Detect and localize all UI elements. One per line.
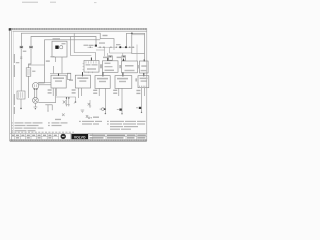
wire C to alternator bbox=[38, 82, 45, 84]
alternator G1 bbox=[32, 83, 38, 89]
relay R1 label bbox=[117, 57, 122, 59]
wire left drop 1 bbox=[20, 48, 22, 91]
wire left drop 2 bbox=[29, 48, 32, 98]
fusible link label bbox=[32, 71, 35, 72]
wire bus A top bbox=[21, 33, 114, 47]
unit box L4 bbox=[115, 76, 132, 89]
coil label bbox=[53, 38, 61, 40]
alternator leads bbox=[34, 89, 36, 98]
top zone tick marks bbox=[12, 28, 145, 29]
inline connector dark blob bbox=[95, 45, 97, 47]
relay box small R2 bbox=[109, 56, 113, 60]
svg-text:VOLVO: VOLVO bbox=[74, 135, 86, 139]
label between U1 U2 bbox=[100, 64, 102, 68]
wire drop right of row bbox=[136, 45, 138, 62]
control unit U2 bbox=[103, 61, 119, 73]
notes text middle block bbox=[79, 121, 102, 125]
battery box left bbox=[17, 91, 25, 99]
wires below L3 bbox=[99, 88, 105, 113]
wire branch y65 bbox=[29, 64, 45, 66]
title block bottom line bbox=[10, 139, 147, 141]
wire below battery bbox=[20, 99, 22, 108]
notes text left block bbox=[11, 122, 44, 131]
wire label left 1 bbox=[23, 51, 27, 52]
junction cluster below L2 bbox=[63, 97, 70, 104]
bus segment right bbox=[127, 33, 145, 59]
frame corner mark bbox=[9, 28, 11, 30]
relay box small R1 bbox=[122, 56, 126, 60]
coil terminal circle bbox=[60, 46, 63, 49]
wire right bus lower bbox=[132, 34, 145, 36]
ignition coil box bbox=[52, 41, 67, 57]
unit box L5 bbox=[138, 76, 149, 88]
connector under L5 bbox=[139, 107, 141, 109]
connector under L4 bbox=[119, 109, 121, 111]
coil primary dark square bbox=[55, 46, 58, 49]
coil leads down bbox=[56, 57, 63, 74]
frame bottom edge bbox=[10, 140, 147, 142]
stub into U3 bbox=[123, 59, 125, 61]
tail end connector bbox=[75, 101, 77, 103]
inline connectors on row bbox=[90, 47, 134, 49]
connector row wire bbox=[88, 46, 135, 48]
wires below L5 bbox=[142, 88, 145, 112]
ground symbol mid bbox=[81, 110, 85, 112]
wire bus C bbox=[45, 40, 101, 83]
connector row labels bbox=[84, 42, 121, 46]
wire alternator to box L1 bbox=[39, 84, 52, 86]
wire y53 link bbox=[108, 47, 132, 58]
wires below L4 bbox=[119, 88, 122, 113]
title block top line bbox=[10, 133, 147, 135]
unit box L1 bbox=[51, 75, 66, 88]
stub into U4 bbox=[143, 59, 145, 61]
label on stepped bus bbox=[103, 35, 108, 36]
notes text second block bbox=[48, 122, 68, 126]
unit box L2 bbox=[75, 75, 90, 88]
wire alternator upper lead bbox=[38, 81, 51, 83]
drawing frame border bbox=[10, 28, 147, 141]
wire starter bus bbox=[38, 88, 55, 102]
control unit U4 bbox=[140, 61, 149, 73]
wire label left 2 bbox=[16, 62, 19, 63]
left margin rule bbox=[12, 31, 14, 133]
faint page header text bbox=[22, 2, 97, 3]
connector J2 bbox=[30, 46, 33, 48]
wire label lower left bbox=[55, 119, 61, 120]
title block mid split right bbox=[93, 136, 147, 138]
bottom zone number ticks bbox=[12, 140, 145, 141]
fusible link box bbox=[26, 68, 31, 76]
wire label lower mid bbox=[93, 117, 99, 118]
label between U3 U4 bbox=[138, 65, 140, 68]
connector under L1 bbox=[45, 105, 52, 110]
left margin vertical text bbox=[14, 54, 15, 114]
notes text right block bbox=[107, 121, 146, 130]
riser wires center bbox=[71, 34, 96, 61]
wires below L2 bbox=[79, 88, 82, 98]
relay R2 label bbox=[103, 57, 108, 59]
logo plate bbox=[71, 134, 88, 139]
starter M1 bbox=[33, 97, 39, 103]
wire y50 stub bbox=[96, 47, 114, 56]
maker emblem bbox=[61, 134, 66, 139]
junction on right bus bbox=[131, 33, 133, 35]
wire right loop drop bbox=[132, 33, 145, 53]
dark connectors on row bbox=[119, 46, 121, 48]
unit box L3 bbox=[95, 76, 110, 89]
title block cell texts bbox=[12, 135, 146, 139]
wire label mid bbox=[51, 56, 55, 57]
title block cell dividers bbox=[15, 134, 137, 140]
control unit U1 bbox=[84, 61, 99, 73]
connector J1 bbox=[20, 46, 23, 48]
stub into U2 bbox=[107, 58, 109, 61]
stub into U1 bbox=[90, 58, 92, 61]
arrow mark bbox=[86, 115, 88, 118]
node mark on left wire bbox=[20, 57, 22, 58]
wire L1 bottom tail bbox=[56, 97, 76, 101]
label between U2 U3 bbox=[119, 65, 121, 68]
dashed strip above title block bbox=[11, 131, 74, 133]
label between L1 L2 bbox=[69, 79, 73, 81]
wires below L1 bbox=[53, 88, 56, 96]
x junction mark bbox=[62, 114, 65, 117]
wire bus B bbox=[31, 37, 96, 47]
stubs into lower boxes bbox=[59, 72, 144, 76]
starter lead and ground bbox=[34, 103, 36, 107]
inline fuse on riser bbox=[67, 73, 70, 79]
connector under L3 bbox=[102, 108, 105, 111]
local bus under coil bbox=[50, 66, 71, 74]
control unit U3 bbox=[122, 61, 138, 73]
